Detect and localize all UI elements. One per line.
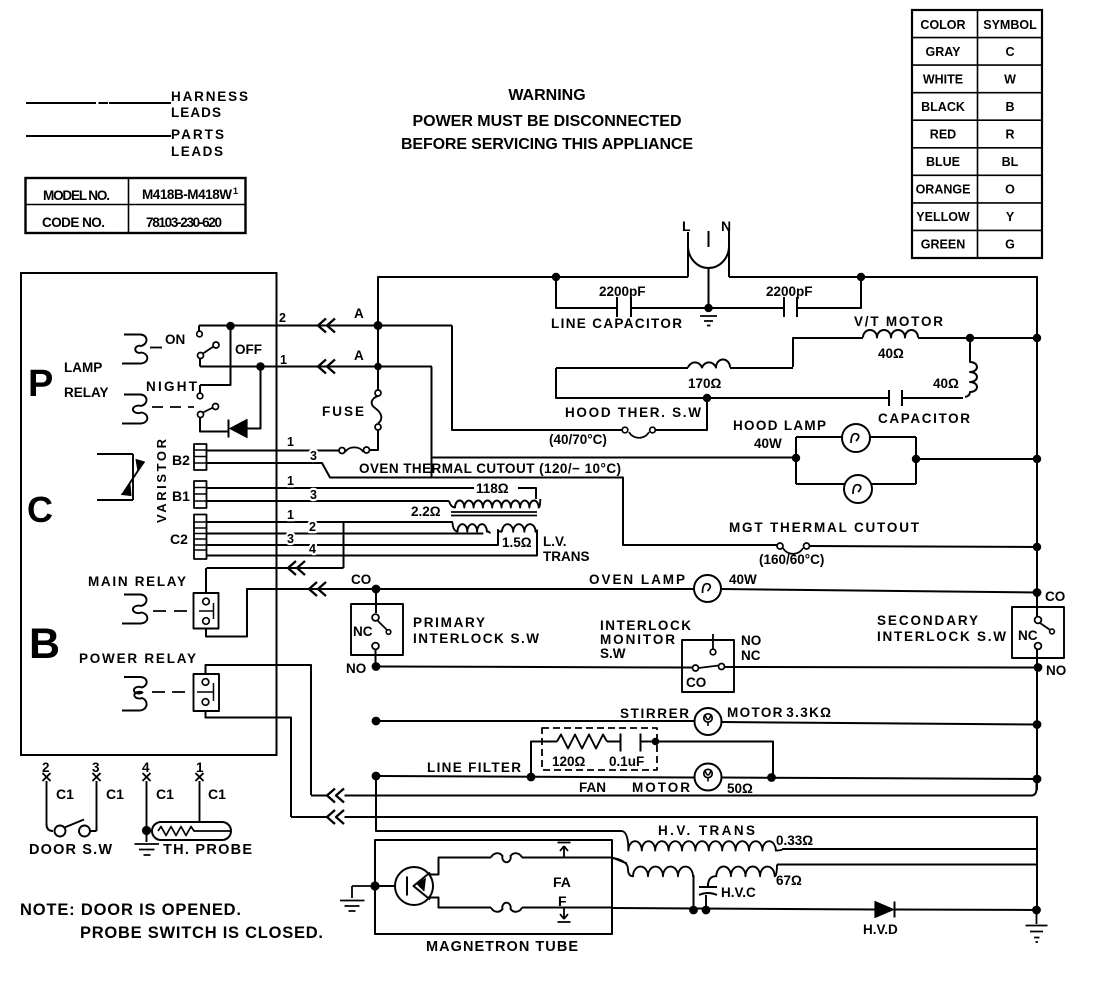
svg-text:67Ω: 67Ω: [776, 873, 802, 888]
svg-text:SECONDARY: SECONDARY: [877, 613, 978, 628]
svg-text:C: C: [27, 489, 53, 530]
svg-text:3: 3: [310, 488, 317, 502]
svg-text:A: A: [354, 348, 364, 363]
svg-text:B2: B2: [172, 452, 190, 468]
svg-text:40Ω: 40Ω: [933, 376, 959, 391]
filament top lead: [430, 858, 492, 875]
node th probe: [143, 827, 150, 834]
capacitor motor run: [889, 390, 902, 406]
svg-text:4: 4: [309, 542, 316, 556]
LV trans core: [451, 512, 537, 516]
svg-text:1: 1: [287, 474, 294, 488]
wire filament top to hv secondary: [522, 858, 627, 864]
wire hood lamp feed: [432, 367, 797, 478]
node CO primary: [373, 586, 380, 593]
svg-text:ON: ON: [165, 332, 185, 347]
wire stirrer row: [376, 721, 1037, 725]
node hood lamp left: [793, 455, 799, 461]
svg-text:2.2Ω: 2.2Ω: [411, 504, 441, 519]
svg-text:WARNING: WARNING: [508, 87, 585, 104]
svg-text:DOOR S.W: DOOR S.W: [29, 842, 112, 858]
dashed link main relay: [153, 610, 187, 612]
svg-text:B: B: [29, 620, 60, 668]
ground symbol at plug: [700, 316, 717, 326]
wire hood lamp to rail: [916, 458, 1037, 460]
wire night switch to diode: [200, 418, 228, 432]
svg-text:RELAY: RELAY: [64, 385, 109, 400]
filament bottom lead: [428, 898, 491, 908]
node hood rail: [1034, 456, 1040, 462]
svg-text:NO: NO: [1046, 663, 1066, 678]
connector pin 1: [196, 773, 204, 823]
inductor hv secondary right: [708, 865, 777, 887]
svg-text:1: 1: [196, 760, 204, 775]
wire hv secondary left down: [693, 876, 695, 910]
wire HVD line: [522, 908, 1037, 911]
svg-text:PRIMARY: PRIMARY: [413, 615, 485, 630]
svg-text:NC: NC: [353, 624, 373, 639]
wire C2-2 line: [207, 533, 484, 535]
svg-text:TRANS: TRANS: [543, 549, 590, 564]
wire ON common to row1: [199, 359, 201, 367]
svg-text:MGT THERMAL CUTOUT: MGT THERMAL CUTOUT: [729, 520, 920, 535]
svg-text:Y: Y: [1006, 210, 1015, 224]
svg-text:CODE NO.: CODE NO.: [42, 215, 105, 230]
lamp hood lower: [844, 475, 872, 503]
node MGT rail: [1034, 544, 1040, 550]
dashed link NIGHT: [152, 406, 194, 408]
resistor 120ohm: [557, 735, 607, 749]
svg-text:BEFORE SERVICING THIS APPLIANC: BEFORE SERVICING THIS APPLIANCE: [401, 136, 693, 153]
wire plug center to ground: [708, 267, 710, 308]
wire C2-4 line: [207, 530, 538, 556]
node filter box crossing: [653, 739, 659, 745]
node NO secondary rail: [1035, 664, 1042, 671]
svg-text:MAGNETRON TUBE: MAGNETRON TUBE: [426, 939, 578, 955]
svg-text:POWER MUST BE DISCONNECTED: POWER MUST BE DISCONNECTED: [413, 113, 682, 130]
wire fan return rail: [311, 779, 1037, 796]
node stirrer rail: [1034, 721, 1041, 728]
node top rail left: [553, 274, 559, 280]
svg-text:CO: CO: [686, 675, 706, 690]
ground th probe: [135, 844, 160, 855]
inductor 40ohm vertical: [965, 338, 977, 397]
svg-text:P: P: [28, 363, 53, 405]
node row1 fuse vertical: [375, 364, 381, 370]
node NO primary: [373, 663, 380, 670]
svg-text:ORANGE: ORANGE: [916, 183, 971, 197]
inductor LV sec 1.5ohm: [502, 524, 537, 532]
svg-text:INTERLOCK: INTERLOCK: [600, 618, 691, 633]
svg-text:1.5Ω: 1.5Ω: [502, 535, 532, 550]
dashed link ON: [150, 347, 162, 349]
relay coil power: [122, 677, 147, 711]
svg-text:G: G: [1005, 238, 1015, 252]
plug N prong: [728, 228, 730, 277]
harness arrow row1: [318, 360, 335, 374]
svg-text:BL: BL: [1002, 155, 1019, 169]
wire right rail: [1036, 338, 1038, 790]
wire 170ohm line: [556, 367, 793, 369]
wire hv primary to rail: [782, 848, 1037, 850]
svg-text:H.V.C: H.V.C: [721, 885, 756, 900]
svg-text:WHITE: WHITE: [923, 73, 963, 87]
svg-text:INTERLOCK S.W: INTERLOCK S.W: [413, 631, 539, 646]
svg-text:0.33Ω: 0.33Ω: [776, 833, 813, 848]
color symbol table: [912, 10, 1042, 258]
node ground tap: [705, 305, 711, 311]
switch interlock monitor: [682, 640, 734, 692]
wire fan row: [376, 776, 1037, 779]
svg-text:N: N: [721, 218, 731, 234]
svg-text:GRAY: GRAY: [926, 45, 962, 59]
f antenna symbol: [558, 908, 571, 923]
node hvc tap: [703, 907, 710, 914]
motor stirrer: [695, 708, 722, 735]
svg-text:O: O: [1005, 183, 1015, 197]
svg-text:40Ω: 40Ω: [878, 346, 904, 361]
svg-text:MONITOR: MONITOR: [600, 632, 675, 647]
svg-text:W: W: [1004, 73, 1016, 87]
wire hv secondary right to rail: [777, 864, 1037, 866]
node cap-hood junction: [704, 395, 710, 401]
svg-text:OVEN THERMAL CUTOUT (120/− 10°: OVEN THERMAL CUTOUT (120/− 10°C): [359, 461, 621, 476]
relay coil main: [122, 595, 147, 624]
wire B2-1 line: [207, 450, 340, 452]
node hv left: [690, 907, 697, 914]
svg-text:50Ω: 50Ω: [727, 781, 753, 796]
inductor VT motor 40ohm: [863, 330, 918, 337]
svg-text:YELLOW: YELLOW: [916, 210, 970, 224]
relay contact main: [194, 593, 219, 629]
svg-text:NC: NC: [741, 648, 761, 663]
wire C2-1 to main relay harness: [207, 522, 344, 568]
svg-text:78103-230-620: 78103-230-620: [146, 215, 222, 230]
svg-text:HOOD THER. S.W: HOOD THER. S.W: [565, 405, 701, 420]
svg-text:NO: NO: [741, 633, 761, 648]
lamp oven 40W: [694, 575, 721, 602]
connector pin 4: [143, 773, 151, 842]
svg-text:2: 2: [309, 520, 316, 534]
switch door: [47, 824, 54, 831]
svg-text:0.1uF: 0.1uF: [609, 754, 644, 769]
svg-text:(160/60°C): (160/60°C): [759, 552, 824, 567]
svg-text:(40/70°C): (40/70°C): [549, 432, 607, 447]
harness arrow fan rail: [327, 789, 344, 803]
svg-text:NC: NC: [1018, 628, 1038, 643]
lamp relay coil ON: [122, 335, 147, 364]
svg-text:HOOD LAMP: HOOD LAMP: [733, 418, 826, 433]
svg-text:BLUE: BLUE: [926, 155, 960, 169]
plug body cup: [688, 231, 729, 268]
svg-text:B: B: [1005, 100, 1014, 114]
svg-text:LEADS: LEADS: [171, 105, 221, 120]
svg-text:GREEN: GREEN: [921, 238, 965, 252]
svg-text:MAIN RELAY: MAIN RELAY: [88, 574, 186, 589]
svg-text:C2: C2: [170, 531, 188, 547]
svg-text:LINE FILTER: LINE FILTER: [427, 760, 521, 775]
svg-text:40W: 40W: [729, 572, 757, 587]
node fan rail: [1034, 776, 1041, 783]
varistor: [97, 454, 143, 500]
connector B1: [194, 481, 207, 508]
thermistor probe: [147, 830, 153, 832]
svg-text:VARISTOR: VARISTOR: [154, 438, 169, 523]
svg-text:C: C: [1005, 45, 1014, 59]
wire capacitor branch: [556, 368, 963, 398]
wire C2-1 line: [207, 521, 454, 523]
line filter dashed box: [542, 728, 657, 770]
svg-text:FUSE: FUSE: [322, 404, 364, 419]
svg-text:PROBE SWITCH IS CLOSED.: PROBE SWITCH IS CLOSED.: [80, 924, 323, 942]
svg-text:SYMBOL: SYMBOL: [983, 18, 1037, 32]
inductor LV sec 2.2ohm: [453, 523, 490, 534]
svg-text:COLOR: COLOR: [920, 18, 965, 32]
switch NIGHT: [197, 393, 203, 399]
plug L prong: [687, 232, 689, 277]
connector pin 3: [93, 773, 101, 827]
svg-text:RED: RED: [930, 128, 956, 142]
node CO secondary rail: [1034, 589, 1041, 596]
svg-text:C1: C1: [208, 786, 226, 802]
svg-text:M418B-M418W: M418B-M418W: [142, 187, 232, 202]
magnetron tube: [375, 885, 395, 887]
svg-text:STIRRER: STIRRER: [620, 706, 689, 721]
wire hv feed rail: [291, 817, 1037, 910]
svg-text:L.V.: L.V.: [543, 534, 567, 549]
thermal cutout oven contacts: [364, 447, 370, 453]
wire hood thermal switch feed: [452, 326, 622, 431]
inductor hv secondary left: [612, 858, 694, 876]
svg-text:NO: NO: [346, 661, 366, 676]
svg-text:C1: C1: [106, 786, 124, 802]
node filter left: [528, 774, 535, 781]
node row2 lamp branch: [227, 323, 234, 330]
motor fan: [695, 764, 722, 791]
harness arrow main relay: [288, 561, 305, 575]
lamp hood upper: [842, 424, 870, 452]
svg-text:CO: CO: [1045, 589, 1065, 604]
harness arrow CO: [309, 582, 326, 596]
wire CO row to oven lamp to rail: [376, 589, 1037, 593]
svg-text:170Ω: 170Ω: [688, 376, 722, 391]
svg-text:B1: B1: [172, 488, 190, 504]
wire B1-1 line 118ohm: [207, 488, 537, 499]
wire MGT to rail: [810, 546, 1038, 547]
wire row1 to arrow A: [200, 366, 432, 368]
svg-text:3: 3: [92, 760, 100, 775]
wire main relay bottom to CO: [206, 589, 373, 637]
node hv ground: [1033, 907, 1040, 914]
svg-text:NIGHT: NIGHT: [146, 379, 198, 394]
svg-text:LEADS: LEADS: [171, 144, 223, 159]
svg-text:3: 3: [287, 532, 294, 546]
ground magnetron: [340, 886, 375, 911]
node stirrer left: [373, 718, 380, 725]
svg-text:BLACK: BLACK: [921, 100, 965, 114]
wire hood lamp parallel branch: [796, 437, 916, 484]
switch primary interlock: [351, 604, 403, 655]
svg-text:R: R: [1005, 128, 1014, 142]
svg-text:FA: FA: [553, 874, 571, 890]
svg-text:H.V. TRANS: H.V. TRANS: [658, 823, 755, 838]
svg-text:3: 3: [310, 449, 317, 463]
wire B1-3 line: [207, 500, 450, 502]
wire night drop: [200, 326, 231, 393]
svg-text:CAPACITOR: CAPACITOR: [878, 411, 970, 426]
svg-text:2200pF: 2200pF: [599, 284, 646, 299]
node row1 night branch: [257, 363, 264, 370]
wire hood switch to cap rail: [656, 398, 708, 430]
dashed link power relay: [152, 691, 185, 693]
svg-text:L: L: [682, 218, 691, 234]
svg-text:HARNESS: HARNESS: [171, 89, 248, 104]
svg-text:2200pF: 2200pF: [766, 284, 813, 299]
svg-text:S.W: S.W: [600, 646, 626, 661]
filament coil top: [491, 853, 522, 862]
node row2 fuse vertical: [375, 322, 382, 329]
svg-text:1: 1: [280, 353, 287, 367]
svg-text:MOTOR: MOTOR: [632, 780, 690, 795]
node magnetron ground: [371, 882, 378, 889]
svg-text:A: A: [354, 306, 364, 321]
node hood lamp right: [913, 456, 919, 462]
capacitor 2200pF right: [784, 297, 797, 317]
node VT rail: [1034, 335, 1040, 341]
legend harness leads line: [27, 102, 170, 104]
wire diode to row1: [247, 367, 261, 429]
svg-text:C1: C1: [56, 786, 74, 802]
svg-text:TH. PROBE: TH. PROBE: [163, 842, 252, 858]
diode lamp relay: [228, 420, 230, 438]
svg-text:FAN: FAN: [579, 780, 606, 795]
svg-text:CO: CO: [351, 572, 371, 587]
lamp relay coil NIGHT: [122, 395, 147, 424]
svg-text:1: 1: [287, 508, 294, 522]
relay contact power: [194, 674, 220, 711]
inductor 170ohm: [688, 360, 730, 368]
capacitor HVC: [699, 883, 717, 910]
svg-text:LINE CAPACITOR: LINE CAPACITOR: [551, 316, 682, 331]
wire VT motor line: [793, 338, 1037, 367]
svg-text:POWER RELAY: POWER RELAY: [79, 651, 196, 666]
node filter right: [768, 774, 775, 781]
fuse: [375, 390, 381, 396]
svg-text:V/T MOTOR: V/T MOTOR: [854, 314, 943, 329]
svg-text:NOTE: DOOR IS OPENED.: NOTE: DOOR IS OPENED.: [20, 901, 241, 919]
svg-text:1: 1: [287, 435, 294, 449]
connector C2: [194, 515, 207, 560]
wire hv primary loop: [376, 776, 622, 831]
capacitor 2200pF left: [617, 297, 631, 317]
connector pin 2: [43, 773, 51, 824]
svg-text:MOTOR 3.3KΩ: MOTOR 3.3KΩ: [727, 705, 831, 720]
wire fuse drop: [377, 326, 379, 391]
magnetron box: [375, 840, 612, 934]
switch ON: [198, 326, 200, 332]
wire row2 to arrow A: [199, 325, 452, 327]
svg-text:OVEN LAMP: OVEN LAMP: [589, 572, 685, 587]
inductor hv trans primary 0.33ohm: [622, 831, 782, 851]
wire power relay top feed: [206, 665, 312, 795]
fa antenna symbol: [558, 843, 571, 858]
svg-text:4: 4: [142, 760, 150, 775]
wire main relay top to harness: [205, 568, 207, 593]
controller box P/C/B: [21, 273, 277, 755]
switch secondary interlock: [1012, 607, 1064, 658]
node fan left: [373, 773, 380, 780]
inductor LV primary 118ohm: [449, 499, 540, 508]
svg-text:1: 1: [233, 186, 238, 196]
node top rail right: [858, 274, 864, 280]
wire power relay bottom feed: [206, 711, 292, 817]
legend parts leads line: [27, 135, 170, 137]
svg-text:2: 2: [42, 760, 50, 775]
ground hv right: [1026, 910, 1048, 942]
wire B2-3 to MGT: [207, 463, 778, 545]
wire NO row: [376, 667, 1037, 668]
svg-text:118Ω: 118Ω: [476, 481, 509, 496]
wire line capacitor rail: [556, 277, 861, 308]
thermal cutout MGT contacts: [777, 543, 783, 549]
svg-text:40W: 40W: [754, 436, 782, 451]
svg-text:INTERLOCK S.W: INTERLOCK S.W: [877, 629, 1006, 644]
diode HVD: [875, 902, 894, 918]
svg-text:120Ω: 120Ω: [552, 754, 586, 769]
svg-text:C1: C1: [156, 786, 174, 802]
harness arrow hv rail: [327, 810, 344, 824]
svg-text:OFF: OFF: [235, 342, 262, 357]
svg-text:MODEL NO.: MODEL NO.: [43, 188, 110, 203]
svg-text:LAMP: LAMP: [64, 360, 102, 375]
connector B2: [194, 444, 207, 470]
wire top rail L: [378, 277, 1037, 338]
svg-text:2: 2: [279, 311, 286, 325]
thermal switch hood: [622, 427, 628, 433]
svg-text:F: F: [558, 893, 567, 909]
capacitor 0.1uF: [621, 734, 641, 752]
model/code table: [26, 178, 246, 233]
svg-text:H.V.D: H.V.D: [863, 922, 898, 937]
svg-text:PARTS: PARTS: [171, 127, 224, 142]
harness arrow row2: [318, 319, 335, 333]
wire filter branch: [531, 742, 773, 778]
filament coil bottom: [491, 903, 522, 912]
wire C2-3 line: [207, 530, 503, 545]
node VT branch: [967, 335, 973, 341]
